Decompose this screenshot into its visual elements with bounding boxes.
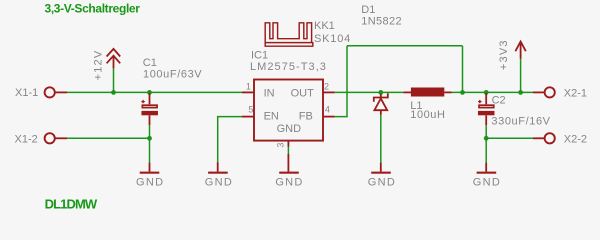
- wire: +12V supply symbol drop to net: [113, 68, 115, 92]
- svg-text:3: 3: [276, 143, 286, 148]
- svg-text:LM2575-T3,3: LM2575-T3,3: [250, 61, 327, 73]
- svg-text:X1-1: X1-1: [15, 87, 38, 99]
- wire: GND junction down to ground symbol under C2: [485, 138, 487, 163]
- diode D1 (schottky): [380, 94, 382, 98]
- heatsink KK1: [265, 23, 313, 46]
- wire: IC1 pin 3 to ground symbol: [287, 147, 289, 155]
- svg-text:IN: IN: [264, 88, 275, 100]
- wire: OUT net from pin 2 to L1: [335, 91, 404, 93]
- svg-text:3,3-V-Schaltregler: 3,3-V-Schaltregler: [45, 2, 141, 16]
- pin 5 stub (EN): [242, 116, 254, 118]
- wire: GND junction to X2-2: [486, 137, 533, 139]
- capacitor C1 (electrolytic): [149, 93, 151, 104]
- pin 3 stub (GND): [287, 141, 289, 147]
- wire: C1 bottom lead down to GND net: [149, 125, 151, 138]
- svg-text:KK1: KK1: [314, 20, 335, 32]
- wire: net +12V from X1-1 to IC1 pin 1: [67, 91, 242, 93]
- svg-text:EN: EN: [264, 111, 279, 123]
- node: junction +12V supply on input net: [111, 90, 116, 95]
- svg-text:330uF/16V: 330uF/16V: [491, 116, 550, 128]
- svg-text:X1-2: X1-2: [15, 133, 38, 145]
- wire: FB feedback top horizontal: [347, 45, 463, 47]
- svg-text:GND: GND: [275, 176, 303, 188]
- svg-text:GND: GND: [205, 176, 233, 188]
- wire: C2 bottom lead down to GND junction: [485, 125, 487, 138]
- svg-text:C2: C2: [492, 94, 506, 106]
- svg-text:2: 2: [324, 81, 329, 91]
- svg-text:DL1DMW: DL1DMW: [45, 197, 98, 212]
- ground symbol under EN wire: [217, 162, 219, 171]
- svg-text:D1: D1: [361, 4, 375, 16]
- svg-text:FB: FB: [299, 111, 313, 123]
- svg-text:1: 1: [246, 81, 251, 91]
- connector X1-1: [56, 91, 68, 93]
- capacitor C2 (electrolytic): [485, 93, 487, 104]
- svg-text:100uH: 100uH: [410, 109, 445, 121]
- svg-text:5: 5: [248, 104, 253, 114]
- wire: X1-2 to GND junction: [67, 137, 150, 139]
- supply symbol +12V (double chevron arrow): [113, 57, 115, 69]
- svg-text:X2-2: X2-2: [564, 133, 587, 145]
- svg-text:GND: GND: [277, 123, 302, 135]
- wire: +3V3 net from L1 to X2-1: [452, 91, 534, 93]
- svg-text:GND: GND: [473, 176, 501, 188]
- node: junction C1 top on input net: [147, 90, 152, 95]
- node: junction X2-2 / C2 bottom: [484, 136, 489, 141]
- connector X1-2: [56, 137, 68, 139]
- svg-text:SK104: SK104: [314, 33, 351, 45]
- svg-text:X2-1: X2-1: [564, 87, 587, 99]
- wire: EN pin 5 to ground symbol: [218, 117, 242, 163]
- pin 2 stub (OUT): [323, 91, 335, 93]
- IC U1 regulator IC1 LM2575 box: [254, 80, 323, 141]
- connector X2-1: [533, 91, 545, 93]
- node: junction X1-2 / C1 bottom: [147, 136, 152, 141]
- svg-text:GND: GND: [368, 176, 396, 188]
- svg-text:OUT: OUT: [291, 88, 315, 100]
- svg-text:100uF/63V: 100uF/63V: [143, 68, 202, 80]
- svg-text:4: 4: [325, 104, 330, 114]
- node: junction C2 top on +3V3 net: [484, 90, 489, 95]
- svg-text:+12V: +12V: [92, 50, 104, 81]
- wire: FB feedback from pin 4 up over wire: [335, 46, 347, 117]
- svg-text:GND: GND: [136, 176, 164, 188]
- svg-text:IC1: IC1: [251, 50, 268, 62]
- ground symbol under IC1 pin 3: [287, 154, 289, 172]
- node: junction +3V3 supply on output net: [518, 90, 523, 95]
- node: junction FB on +3V3 net: [460, 90, 465, 95]
- svg-text:+3V3: +3V3: [498, 39, 510, 70]
- svg-text:1N5822: 1N5822: [361, 16, 402, 28]
- supply symbol +3V3 (arrow): [520, 42, 522, 59]
- pin 1 stub (IN): [242, 91, 254, 93]
- pin 4 stub (FB): [323, 116, 335, 118]
- connector X2-2: [533, 137, 545, 139]
- ground symbol under D1: [380, 163, 382, 172]
- wire: D1 anode down to ground symbol: [380, 115, 382, 164]
- wire: FB feedback down to +3V3 net: [462, 46, 464, 93]
- wire: +3V3 supply symbol drop to net: [520, 59, 522, 93]
- ground symbol under C2: [485, 163, 487, 172]
- inductor L1: [403, 91, 411, 93]
- wire: GND junction down to ground symbol under C1: [149, 138, 151, 163]
- node: junction D1 cathode on OUT net: [378, 90, 383, 95]
- ground symbol under C1: [149, 163, 151, 172]
